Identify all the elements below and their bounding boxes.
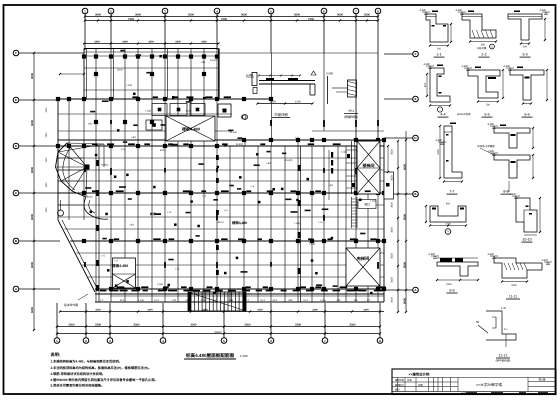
svg-text:5.其余未尽事宜均参见有关标准图集。: 5.其余未尽事宜均参见有关标准图集。 <box>51 384 105 388</box>
svg-text:3600: 3600 <box>391 227 394 233</box>
section detail 8-8 lower <box>494 155 530 178</box>
svg-text:7-7: 7-7 <box>449 190 454 194</box>
svg-text:1800: 1800 <box>45 207 48 213</box>
axis vertical at 324 upper stub <box>323 53 325 131</box>
svg-text:L1(3): L1(3) <box>145 109 151 112</box>
detail annotation clutter <box>432 11 438 13</box>
svg-text:7200: 7200 <box>221 18 227 21</box>
svg-text:3300: 3300 <box>191 324 197 327</box>
svg-text:1.本层结构标高为4.480，与标高相差见本页说明。: 1.本层结构标高为4.480，与标高相差见本页说明。 <box>51 360 122 364</box>
svg-text:楼面4.480: 楼面4.480 <box>232 221 247 225</box>
svg-text:4-4: 4-4 <box>440 113 445 117</box>
svg-text:洞口: 洞口 <box>364 203 370 207</box>
svg-text:3300: 3300 <box>363 309 369 312</box>
title block top row line <box>392 377 556 379</box>
top dimension line 2 <box>85 20 378 22</box>
svg-text:4.图中Φ200 表示板内预留孔洞位置及尺寸详见设备专业图: 4.图中Φ200 表示板内预留孔洞位置及尺寸详见设备专业图每一予留孔止洞。 <box>51 378 158 382</box>
svg-text:7200: 7200 <box>308 18 314 21</box>
section detail 6-6 <box>510 70 544 100</box>
svg-text:L1(3): L1(3) <box>320 299 326 302</box>
svg-text:3600: 3600 <box>95 14 101 17</box>
svg-text:900: 900 <box>446 203 451 206</box>
section detail 2-2 <box>462 14 496 38</box>
small vertical labels on major vertical axes <box>84 168 86 172</box>
svg-text:3.900: 3.900 <box>326 72 333 76</box>
bottom inner dimension line <box>60 311 384 313</box>
svg-text:3600: 3600 <box>391 297 394 303</box>
left grid axis circles <box>13 50 19 56</box>
title block bottom strip entries <box>466 392 477 394</box>
section detail 4-4 <box>430 68 450 102</box>
top grid axis circles <box>82 8 88 14</box>
top dimension ticks and figures <box>84 15 86 17</box>
bottom axis extension lines <box>56 303 58 338</box>
svg-text:6000: 6000 <box>403 164 406 170</box>
plan lower body verticals <box>95 146 97 302</box>
canopy detail right hook <box>311 71 316 75</box>
svg-text:B120: B120 <box>117 68 123 71</box>
svg-text:E: E <box>15 98 17 102</box>
svg-text:KL3: KL3 <box>273 299 278 302</box>
columns (black squares) at grid intersections <box>82 54 86 58</box>
svg-text:1500: 1500 <box>295 101 301 104</box>
svg-text:3300: 3300 <box>95 324 101 327</box>
svg-text:1.0b: 1.0b <box>501 307 507 310</box>
svg-text:L7a: L7a <box>202 194 207 197</box>
svg-text:L1(3): L1(3) <box>157 283 163 286</box>
svg-text:350: 350 <box>481 44 486 47</box>
svg-text:KL3(2): KL3(2) <box>210 59 217 62</box>
svg-text:B120: B120 <box>87 195 93 198</box>
left axis extension lines <box>19 52 84 54</box>
svg-text:结 施: 结 施 <box>539 378 546 382</box>
svg-text:2.未注明板顶标高均为结构标高，板面标高见注(H)，楼板钢筋: 2.未注明板顶标高均为结构标高，板面标高见注(H)，楼板钢筋见注(H)。 <box>51 366 152 370</box>
svg-text:牛腿详图: 牛腿详图 <box>274 113 288 117</box>
svg-text:KL3: KL3 <box>304 299 309 302</box>
svg-text:3600: 3600 <box>391 149 394 155</box>
svg-text:L7a: L7a <box>237 288 242 291</box>
svg-text:KL3: KL3 <box>120 299 125 302</box>
svg-text:11-11: 11-11 <box>509 295 517 299</box>
plan upper block vertical beam lines <box>83 49 85 100</box>
svg-text:F: F <box>415 52 417 56</box>
wall marks at axis 217 <box>216 155 219 160</box>
elevator panel with X brace P3 <box>346 248 380 286</box>
svg-text:××大学2#教学楼: ××大学2#教学楼 <box>476 382 503 387</box>
svg-text:L1(3): L1(3) <box>201 299 207 302</box>
right grid axis circles <box>413 51 419 57</box>
svg-text:LB1: LB1 <box>132 136 137 139</box>
plan left strip verticals <box>57 99 59 220</box>
svg-text:3600: 3600 <box>135 14 141 17</box>
svg-text:1800: 1800 <box>201 41 207 44</box>
svg-text:60: 60 <box>476 320 480 324</box>
svg-text:1800: 1800 <box>94 41 100 44</box>
svg-text:LB1: LB1 <box>88 123 93 126</box>
svg-text:加筋见图: 加筋见图 <box>477 47 487 50</box>
section detail 11-11 <box>494 258 542 278</box>
svg-text:YP1: YP1 <box>348 109 354 113</box>
plan lower-left diagonal boundary <box>58 220 95 292</box>
svg-text:3600: 3600 <box>294 14 300 17</box>
detail 8-8 right drop line <box>508 181 510 192</box>
stair well panel with X brace P2 <box>357 141 380 194</box>
plan right edge vertical <box>383 140 385 302</box>
section detail 3-3 <box>508 14 542 40</box>
svg-text:梁加筋 见平面图: 梁加筋 见平面图 <box>477 144 495 148</box>
svg-text:L7a: L7a <box>121 148 126 151</box>
plan upper block horizontal beam lines <box>84 48 219 50</box>
svg-text:电梯间: 电梯间 <box>357 256 370 261</box>
left strip beam stubs <box>58 157 84 159</box>
svg-text:1500: 1500 <box>270 101 276 104</box>
section detail 9-9 beam elevation <box>437 262 478 276</box>
svg-text:KL3(2): KL3(2) <box>236 143 243 146</box>
svg-text:1500: 1500 <box>511 284 517 287</box>
labels along plan bottom edge band <box>100 290 106 292</box>
svg-text:1800: 1800 <box>148 41 154 44</box>
upper block dimension line <box>84 43 219 45</box>
canopy beam detail D1 <box>252 73 257 86</box>
right inner dimension line <box>397 141 399 312</box>
svg-text:8-8: 8-8 <box>503 190 508 194</box>
svg-text:KL3: KL3 <box>261 299 266 302</box>
fan inner arc <box>63 148 75 190</box>
svg-text:L7a: L7a <box>319 221 324 224</box>
right axis extension lines <box>384 53 413 55</box>
svg-text:F: F <box>15 51 17 55</box>
svg-text:3600: 3600 <box>391 277 394 283</box>
svg-text:LB1: LB1 <box>130 223 135 226</box>
svg-text:1800: 1800 <box>45 182 48 188</box>
beam labels along major horizontal axes <box>132 96 138 98</box>
left dimension line <box>33 53 35 330</box>
plan mid band verticals <box>95 99 97 146</box>
svg-text:日期: 日期 <box>461 392 467 396</box>
small column detail square near axis 217 <box>218 104 231 117</box>
svg-text:1-1: 1-1 <box>436 53 441 57</box>
svg-text:负责: 负责 <box>407 378 412 382</box>
axis vertical at 271 upper <box>271 53 273 146</box>
fan extra radiating lines <box>67 143 104 144</box>
svg-text:LB5: LB5 <box>288 299 293 302</box>
section detail 7-7 <box>444 126 462 178</box>
svg-text:3300: 3300 <box>245 324 251 327</box>
svg-text:楼梯间: 楼梯间 <box>363 163 375 168</box>
svg-text:6000: 6000 <box>403 298 406 304</box>
svg-text:3300: 3300 <box>134 324 140 327</box>
svg-text:200: 200 <box>486 104 491 107</box>
svg-text:1800: 1800 <box>45 107 48 113</box>
svg-text:3600: 3600 <box>391 253 394 259</box>
section detail 1-1 <box>426 14 448 42</box>
svg-text:6000: 6000 <box>31 214 34 220</box>
svg-text:板厚120: 板厚120 <box>150 212 161 216</box>
svg-text:3-3: 3-3 <box>522 53 527 57</box>
svg-text:1800: 1800 <box>45 132 48 138</box>
svg-text:楼板4.480: 楼板4.480 <box>182 127 201 132</box>
right dimension line <box>405 131 407 312</box>
svg-text:3600: 3600 <box>241 14 247 17</box>
svg-text:6000: 6000 <box>31 262 34 268</box>
svg-text:××建筑设计院: ××建筑设计院 <box>409 372 431 376</box>
exterior landing rect right of P2 <box>384 172 394 199</box>
svg-text:6-6: 6-6 <box>524 113 529 117</box>
bottom grid axis circles <box>54 338 60 344</box>
svg-text:200: 200 <box>437 48 442 51</box>
svg-text:3600: 3600 <box>337 14 343 17</box>
plan lower body horizontal beam lines <box>58 157 384 159</box>
svg-text:先浇300砼墙: 先浇300砼墙 <box>457 112 471 116</box>
svg-text:LB1: LB1 <box>267 162 272 165</box>
svg-text:楼面4.480: 楼面4.480 <box>112 263 128 268</box>
svg-text:1200: 1200 <box>445 223 451 226</box>
svg-text:6000: 6000 <box>31 307 34 313</box>
svg-text:E: E <box>414 97 416 101</box>
svg-text:5-5: 5-5 <box>484 113 489 117</box>
svg-text:L1(3): L1(3) <box>139 299 145 302</box>
small shaft panel P4 with X brace <box>113 258 136 288</box>
svg-text:3300: 3300 <box>312 309 318 312</box>
fan shaped bay outline <box>56 143 87 197</box>
svg-text:(梁中筋构造): (梁中筋构造) <box>496 359 511 363</box>
svg-text:L1(3): L1(3) <box>341 151 347 154</box>
svg-text:6000: 6000 <box>403 214 406 220</box>
svg-text:LB1: LB1 <box>201 61 206 64</box>
svg-text:KL3: KL3 <box>186 299 191 302</box>
svg-text:1800: 1800 <box>122 41 128 44</box>
small room panel below P2 <box>358 200 376 209</box>
plan mid band horizontal beam lines <box>58 98 272 100</box>
svg-text:KL3: KL3 <box>154 299 159 302</box>
upper block left dim stub <box>60 73 84 75</box>
svg-text:LB5: LB5 <box>229 299 234 302</box>
curved bay lower arc <box>84 197 108 219</box>
canopy section detail D2 <box>327 76 329 104</box>
svg-text:600: 600 <box>424 82 427 87</box>
svg-text:3300: 3300 <box>69 324 75 327</box>
svg-text:1:100: 1:100 <box>240 354 248 358</box>
svg-text:1550: 1550 <box>437 149 440 155</box>
mid band right stubs <box>244 140 246 146</box>
section detail 8-8 upper <box>494 128 530 148</box>
svg-text:后浇带详图: 后浇带详图 <box>64 303 78 307</box>
plan upper block right edge <box>218 49 220 100</box>
section detail 10-10 <box>516 198 537 232</box>
svg-text:L1(3): L1(3) <box>309 242 315 245</box>
vertical annotation marks near axis 324 <box>331 152 333 158</box>
svg-text:3300: 3300 <box>350 324 356 327</box>
stair side strip left of P2 <box>351 141 353 194</box>
svg-text:6000: 6000 <box>31 167 34 173</box>
svg-text:B120: B120 <box>160 149 166 152</box>
svg-text:LB1: LB1 <box>329 184 334 187</box>
svg-text:3600: 3600 <box>391 175 394 181</box>
svg-text:3300: 3300 <box>95 309 101 312</box>
stair flight strip below P2 <box>351 197 353 228</box>
stair treads hatch <box>188 292 246 311</box>
canopy detail D1 top dim marks <box>259 75 300 77</box>
svg-text:1800: 1800 <box>45 157 48 163</box>
bottom dimension line 2 <box>57 333 380 335</box>
svg-text:校对: 校对 <box>399 383 404 387</box>
upper block doubled beam edges <box>85 49 87 100</box>
svg-text:KL3(2): KL3(2) <box>285 159 292 162</box>
section detail 5-5 <box>468 70 500 98</box>
svg-text:6000: 6000 <box>31 120 34 126</box>
svg-text:3600: 3600 <box>391 202 394 208</box>
svg-text:46200: 46200 <box>214 331 222 334</box>
svg-text:3600: 3600 <box>364 14 370 17</box>
svg-text:KL3(2): KL3(2) <box>230 131 237 134</box>
top axis extension lines <box>84 14 86 50</box>
svg-text:250: 250 <box>523 46 528 49</box>
svg-text:(雨棚详图): (雨棚详图) <box>344 115 358 119</box>
svg-text:L1(3): L1(3) <box>126 84 132 87</box>
svg-text:3.钢筋-弯钩做法详见结构设计总说明。: 3.钢筋-弯钩做法详见结构设计总说明。 <box>51 372 106 376</box>
svg-text:B120: B120 <box>186 109 192 112</box>
beam reference labels texture <box>90 111 95 113</box>
svg-text:KL3(2): KL3(2) <box>101 163 108 166</box>
svg-text:3600: 3600 <box>188 14 194 17</box>
plan mid band extra right segment <box>312 130 384 132</box>
svg-text:3300: 3300 <box>257 309 263 312</box>
title block right cells <box>527 378 529 392</box>
svg-text:L7a: L7a <box>295 137 300 140</box>
svg-text:3300: 3300 <box>147 309 153 312</box>
svg-text:设计: 设计 <box>395 388 401 392</box>
axis line A across top right <box>219 52 379 54</box>
shear wall double line at axis 298 <box>300 146 302 302</box>
svg-text:标高4.480屋面板配筋图: 标高4.480屋面板配筋图 <box>185 353 235 358</box>
svg-text:L7a: L7a <box>167 211 172 214</box>
svg-text:日期: 日期 <box>418 384 423 387</box>
title block outer frame <box>392 369 556 395</box>
bottom dimension line 1 <box>57 326 380 328</box>
dimension marks right of plan mid <box>387 146 389 172</box>
svg-text:10-10: 10-10 <box>522 238 531 242</box>
svg-text:12-12: 12-12 <box>499 354 508 358</box>
plan lower-left inner diagonal <box>62 220 98 290</box>
small framed cells above panel P1 <box>152 104 167 116</box>
svg-text:6000: 6000 <box>403 262 406 268</box>
plan bottom edge lines <box>95 288 384 290</box>
channel detail below 7-7 <box>430 206 466 222</box>
svg-text:工程: 工程 <box>399 379 404 382</box>
svg-text:说明:: 说明: <box>51 352 61 357</box>
svg-text:L7a: L7a <box>175 267 180 270</box>
svg-text:B120: B120 <box>218 221 224 224</box>
title block inner grid <box>392 381 458 383</box>
shear wall double line at axis 96 <box>98 146 100 302</box>
svg-text:6000: 6000 <box>31 73 34 79</box>
elevator shaft panel with X brace P1 <box>166 116 215 141</box>
svg-text:3300: 3300 <box>295 324 301 327</box>
svg-text:L1(3): L1(3) <box>370 200 376 203</box>
top dimension line 1 <box>85 16 378 18</box>
svg-text:7200: 7200 <box>128 18 134 21</box>
fan spokes <box>67 143 87 167</box>
svg-text:9-9: 9-9 <box>449 289 454 293</box>
svg-text:1800: 1800 <box>175 41 181 44</box>
svg-text:4.480: 4.480 <box>246 73 253 77</box>
svg-text:L1(3): L1(3) <box>294 222 300 225</box>
fan small circle mark <box>58 210 64 216</box>
svg-text:1800: 1800 <box>446 283 452 286</box>
svg-text:2-2: 2-2 <box>481 53 486 57</box>
section detail 12-12 L-shape <box>486 311 516 340</box>
fan hub column <box>85 165 90 170</box>
